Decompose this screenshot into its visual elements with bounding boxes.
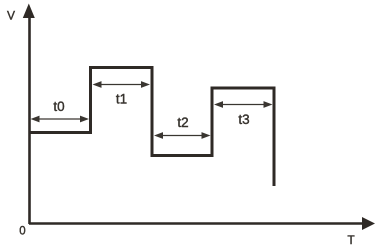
dimension arrow t1 bbox=[93, 81, 151, 88]
T axis bbox=[29, 217, 375, 230]
dimension arrow t2 bbox=[154, 132, 211, 139]
svg-text:t2: t2 bbox=[177, 115, 188, 130]
V axis bbox=[23, 4, 35, 225]
svg-text:t3: t3 bbox=[238, 112, 249, 127]
svg-text:0: 0 bbox=[19, 226, 25, 238]
svg-text:V: V bbox=[7, 9, 15, 23]
dimension arrow t0 bbox=[31, 116, 90, 123]
wire waveform bbox=[29, 68, 274, 187]
svg-text:t1: t1 bbox=[116, 92, 127, 107]
svg-text:t0: t0 bbox=[53, 99, 64, 114]
dimension arrow t3 bbox=[214, 101, 273, 108]
svg-text:T: T bbox=[347, 233, 355, 247]
